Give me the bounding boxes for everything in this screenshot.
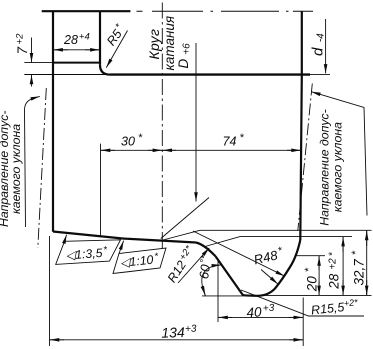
top edge of template (thick) bbox=[42, 10, 131, 12]
right note bracket and leader bbox=[311, 92, 367, 216]
dimension 134 line bbox=[50, 339, 304, 341]
leader R5 bbox=[106, 31, 127, 68]
notch left flank 60deg bbox=[216, 256, 244, 295]
slope box 1:3.5 leader bbox=[65, 235, 67, 242]
top centerline dash-dot continuation bbox=[137, 10, 314, 12]
slope box 1:3.5 bbox=[56, 240, 121, 265]
leader R15.5 bbox=[241, 290, 364, 316]
svg-text:32,7*: 32,7* bbox=[350, 250, 367, 285]
dimension d line bbox=[325, 19, 327, 73]
dimension 40 left extension bbox=[217, 259, 219, 322]
tread line (thick) bbox=[110, 73, 310, 75]
svg-text:◁1:10*: ◁1:10* bbox=[119, 251, 159, 270]
60deg arc arrows bbox=[203, 287, 205, 295]
extension line of tab bottom (left of edge) bbox=[24, 62, 53, 64]
svg-text:◁1:3,5*: ◁1:3,5* bbox=[65, 245, 108, 263]
svg-text:74*: 74* bbox=[223, 132, 245, 149]
svg-text:R15,5+2*: R15,5+2* bbox=[310, 297, 359, 317]
svg-text:7+2: 7+2 bbox=[14, 33, 30, 55]
svg-text:d-4: d-4 bbox=[310, 33, 327, 56]
dimension 30 extension line bbox=[100, 144, 102, 237]
rolling circle centerline bbox=[161, 3, 163, 251]
leader R48 stub arrow bbox=[261, 270, 278, 285]
notch right wall R15.5 bbox=[243, 240, 300, 296]
bottom profile edge 1:10 bbox=[124, 239, 196, 243]
dimension 28 vertical bbox=[342, 237, 344, 295]
dimension D leader diagonal bbox=[161, 198, 209, 239]
dimension 30 line bbox=[101, 149, 163, 151]
extension line C bbox=[295, 255, 326, 257]
dimension 32.7 bbox=[366, 231, 368, 296]
fillet R5 bbox=[100, 65, 110, 75]
right edge lower slanted bbox=[300, 75, 302, 240]
fillet R12 bbox=[196, 243, 216, 257]
dimension 28 arrows bbox=[54, 49, 68, 51]
dimension D leader vertical bbox=[195, 43, 197, 202]
tread level thin extension right bbox=[310, 74, 330, 76]
svg-text:каемого уклона: каемого уклона bbox=[9, 124, 23, 214]
svg-text:каемого уклона: каемого уклона bbox=[330, 122, 344, 212]
dimension 28 line bbox=[54, 49, 99, 51]
right edge upper bbox=[301, 11, 303, 74]
dimension 74 line bbox=[162, 149, 301, 151]
slope box 1:10 leader bbox=[119, 241, 124, 254]
svg-text:60°*: 60°* bbox=[196, 254, 214, 280]
tread level thin line left bbox=[24, 74, 110, 76]
60deg arc bbox=[202, 265, 222, 296]
dimension 40 line bbox=[218, 316, 303, 318]
extension line B bbox=[205, 237, 352, 247]
svg-text:28+4: 28+4 bbox=[63, 32, 90, 48]
right slope direction dash-dot bbox=[298, 84, 313, 231]
extension line D notch bottom bbox=[257, 294, 372, 296]
svg-text:катания: катания bbox=[162, 16, 177, 71]
flange tab bottom edge bbox=[53, 62, 100, 64]
dimension 20 bbox=[318, 256, 320, 295]
dimension 7 upper arrow line bbox=[31, 38, 33, 63]
dimension 134 extensions bbox=[49, 236, 51, 346]
bottom profile edge 1:3.5 bbox=[53, 232, 124, 239]
svg-text:134+3: 134+3 bbox=[161, 324, 197, 341]
svg-text:30*: 30* bbox=[121, 132, 143, 149]
svg-text:28+2*: 28+2* bbox=[327, 251, 342, 289]
svg-text:20*: 20* bbox=[303, 267, 320, 292]
extension line A from rolling point bbox=[163, 230, 372, 240]
leader R48 bbox=[193, 231, 285, 276]
svg-text:Круг: Круг bbox=[146, 29, 162, 60]
leader R12 bbox=[178, 248, 209, 283]
svg-text:R48*: R48* bbox=[252, 245, 285, 268]
slope box 1:10 bbox=[113, 248, 166, 274]
dimension 7 lower arrow line bbox=[31, 75, 33, 87]
left slope direction dash-dot bbox=[38, 88, 47, 248]
flange tab right edge bbox=[99, 11, 101, 65]
60deg horizontal reference bbox=[202, 295, 244, 297]
left note bracket and leader bbox=[25, 96, 40, 227]
left edge of template bbox=[52, 11, 54, 232]
svg-text:D+6: D+6 bbox=[176, 43, 193, 69]
